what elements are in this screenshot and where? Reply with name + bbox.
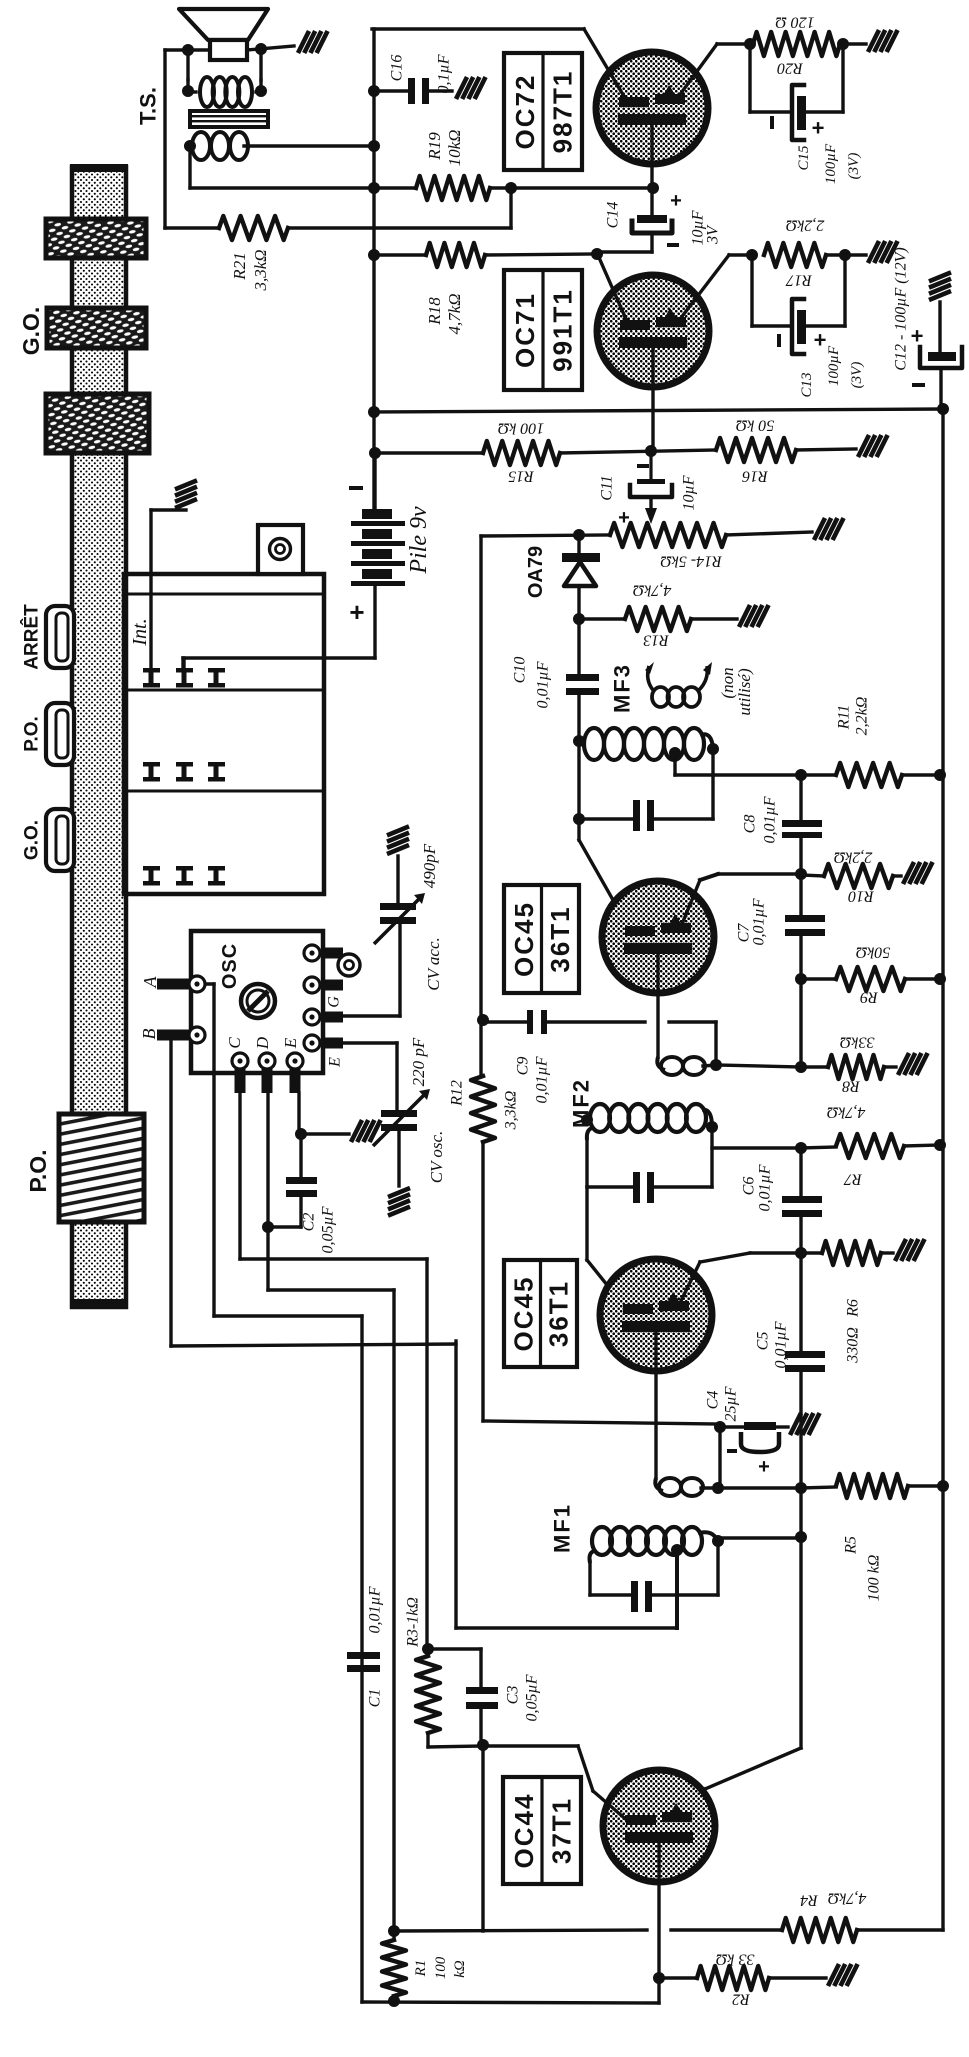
svg-text:OC45: OC45 bbox=[509, 901, 539, 977]
svg-text:C4: C4 bbox=[704, 1391, 721, 1410]
svg-text:10kΩ: 10kΩ bbox=[445, 130, 464, 167]
svg-text:0,01µF: 0,01µF bbox=[534, 661, 551, 708]
svg-text:0,01µF: 0,01µF bbox=[756, 1164, 773, 1211]
svg-text:C16: C16 bbox=[388, 55, 405, 82]
svg-text:R12: R12 bbox=[448, 1080, 465, 1107]
svg-text:0,1µF: 0,1µF bbox=[435, 54, 452, 93]
svg-text:OC72: OC72 bbox=[510, 74, 540, 150]
svg-text:220 pF: 220 pF bbox=[409, 1037, 428, 1086]
svg-text:C10: C10 bbox=[511, 657, 528, 684]
svg-text:4,7kΩ: 4,7kΩ bbox=[827, 1104, 866, 1121]
svg-text:R10: R10 bbox=[848, 888, 875, 905]
svg-text:C2: C2 bbox=[300, 1213, 317, 1232]
svg-text:G: G bbox=[325, 996, 342, 1008]
svg-text:R7: R7 bbox=[843, 1171, 863, 1188]
svg-text:36T1: 36T1 bbox=[545, 905, 575, 972]
svg-text:50 kΩ: 50 kΩ bbox=[736, 417, 775, 434]
svg-text:100µF: 100µF bbox=[826, 345, 842, 386]
svg-text:utilisé): utilisé) bbox=[735, 668, 754, 716]
svg-text:R20: R20 bbox=[777, 60, 804, 77]
svg-text:+: + bbox=[814, 327, 827, 352]
svg-text:R21: R21 bbox=[230, 252, 249, 280]
svg-text:P.O.: P.O. bbox=[21, 716, 42, 752]
svg-text:B: B bbox=[139, 1029, 159, 1040]
svg-text:2,2kΩ: 2,2kΩ bbox=[786, 217, 825, 234]
svg-text:+: + bbox=[911, 323, 924, 348]
svg-text:37T1: 37T1 bbox=[546, 1797, 576, 1864]
svg-text:2,2kΩ: 2,2kΩ bbox=[834, 849, 873, 866]
svg-text:C8: C8 bbox=[741, 815, 758, 834]
svg-text:T.S.: T.S. bbox=[135, 87, 160, 125]
svg-text:120 Ω: 120 Ω bbox=[775, 14, 815, 31]
svg-text:R1: R1 bbox=[413, 1960, 429, 1978]
svg-text:100 kΩ: 100 kΩ bbox=[865, 1555, 882, 1602]
svg-text:OC44: OC44 bbox=[509, 1793, 539, 1869]
svg-text:0,05µF: 0,05µF bbox=[523, 1674, 540, 1721]
svg-text:0,01µF: 0,01µF bbox=[366, 1586, 383, 1633]
svg-text:R14- 5kΩ: R14- 5kΩ bbox=[660, 553, 723, 570]
svg-text:R3-1kΩ: R3-1kΩ bbox=[404, 1597, 421, 1648]
svg-text:OSC: OSC bbox=[219, 943, 241, 989]
svg-text:0,01µF: 0,01µF bbox=[750, 898, 767, 945]
svg-text:3,3kΩ: 3,3kΩ bbox=[251, 249, 270, 291]
svg-text:E: E bbox=[281, 1037, 300, 1049]
svg-text:100: 100 bbox=[433, 1956, 449, 1979]
svg-text:C9: C9 bbox=[514, 1057, 531, 1076]
svg-text:C15: C15 bbox=[796, 145, 812, 171]
svg-text:C14: C14 bbox=[604, 202, 621, 229]
svg-text:330Ω: 330Ω bbox=[844, 1327, 861, 1364]
svg-text:991T1: 991T1 bbox=[547, 288, 577, 372]
svg-text:36T1: 36T1 bbox=[544, 1280, 574, 1347]
svg-text:R5: R5 bbox=[842, 1536, 859, 1555]
svg-text:ARRÊT: ARRÊT bbox=[20, 604, 42, 670]
svg-text:C12 - 100µF (12V): C12 - 100µF (12V) bbox=[892, 247, 909, 370]
svg-text:OA79: OA79 bbox=[525, 546, 547, 598]
svg-text:C11: C11 bbox=[598, 475, 615, 500]
svg-text:+: + bbox=[812, 115, 825, 140]
svg-text:4,7kΩ: 4,7kΩ bbox=[828, 1890, 867, 1907]
svg-text:C5: C5 bbox=[754, 1332, 771, 1351]
svg-text:E: E bbox=[326, 1057, 343, 1068]
svg-text:33 kΩ: 33 kΩ bbox=[716, 1951, 756, 1968]
svg-text:D: D bbox=[253, 1036, 272, 1050]
svg-text:100µF: 100µF bbox=[823, 143, 839, 184]
svg-text:0,01µF: 0,01µF bbox=[533, 1056, 550, 1103]
svg-text:OC45: OC45 bbox=[509, 1276, 539, 1352]
svg-text:490pF: 490pF bbox=[420, 843, 439, 888]
svg-text:10µF: 10µF bbox=[680, 475, 697, 510]
svg-text:R15: R15 bbox=[508, 468, 535, 485]
svg-text:R17: R17 bbox=[785, 272, 813, 289]
svg-text:kΩ: kΩ bbox=[452, 1960, 468, 1978]
svg-text:R8: R8 bbox=[842, 1078, 861, 1095]
svg-text:+: + bbox=[349, 597, 364, 627]
svg-text:C3: C3 bbox=[504, 1686, 521, 1705]
svg-text:4,7kΩ: 4,7kΩ bbox=[445, 293, 464, 334]
svg-text:0,05µF: 0,05µF bbox=[319, 1206, 336, 1253]
svg-text:C1: C1 bbox=[366, 1689, 383, 1708]
svg-text:A: A bbox=[140, 976, 160, 989]
svg-text:R18: R18 bbox=[425, 297, 444, 326]
svg-text:R16: R16 bbox=[742, 468, 769, 485]
svg-text:+: + bbox=[758, 1456, 770, 1478]
svg-text:0,01µF: 0,01µF bbox=[772, 1321, 789, 1368]
svg-text:OC71: OC71 bbox=[510, 292, 540, 368]
svg-text:R9: R9 bbox=[860, 989, 879, 1006]
svg-text:2,2kΩ: 2,2kΩ bbox=[853, 697, 870, 736]
svg-text:R6: R6 bbox=[844, 1299, 861, 1318]
svg-text:CV acc.: CV acc. bbox=[424, 937, 443, 991]
svg-text:C6: C6 bbox=[740, 1177, 757, 1196]
svg-text:33kΩ: 33kΩ bbox=[840, 1034, 876, 1051]
svg-text:+: + bbox=[670, 190, 682, 212]
svg-text:P.O.: P.O. bbox=[25, 1149, 51, 1192]
svg-text:R2: R2 bbox=[732, 1991, 751, 2008]
svg-text:Pile 9v: Pile 9v bbox=[406, 506, 432, 575]
svg-text:4,7kΩ: 4,7kΩ bbox=[633, 582, 672, 599]
svg-text:R4: R4 bbox=[800, 1892, 819, 1909]
svg-text:3,3kΩ: 3,3kΩ bbox=[502, 1091, 519, 1131]
svg-text:MF1: MF1 bbox=[549, 1503, 574, 1553]
svg-text:25µF: 25µF bbox=[722, 1386, 739, 1421]
svg-text:R11: R11 bbox=[835, 705, 852, 731]
svg-text:MF3: MF3 bbox=[609, 663, 634, 713]
svg-text:(3V): (3V) bbox=[846, 153, 862, 180]
svg-text:(3V): (3V) bbox=[849, 362, 865, 389]
svg-text:Int.: Int. bbox=[129, 618, 151, 646]
svg-text:0,01µF: 0,01µF bbox=[761, 796, 778, 843]
svg-text:C13: C13 bbox=[799, 372, 815, 397]
svg-text:3V: 3V bbox=[704, 224, 721, 245]
svg-text:G.O.: G.O. bbox=[18, 307, 44, 356]
svg-text:G.O.: G.O. bbox=[21, 820, 42, 860]
svg-text:987T1: 987T1 bbox=[547, 70, 577, 154]
svg-text:C: C bbox=[225, 1037, 244, 1049]
svg-text:R13: R13 bbox=[643, 632, 670, 649]
svg-text:100 kΩ: 100 kΩ bbox=[498, 420, 545, 437]
svg-text:50kΩ: 50kΩ bbox=[856, 944, 891, 961]
svg-text:R19: R19 bbox=[425, 132, 444, 161]
svg-text:CV osc.: CV osc. bbox=[427, 1131, 446, 1184]
